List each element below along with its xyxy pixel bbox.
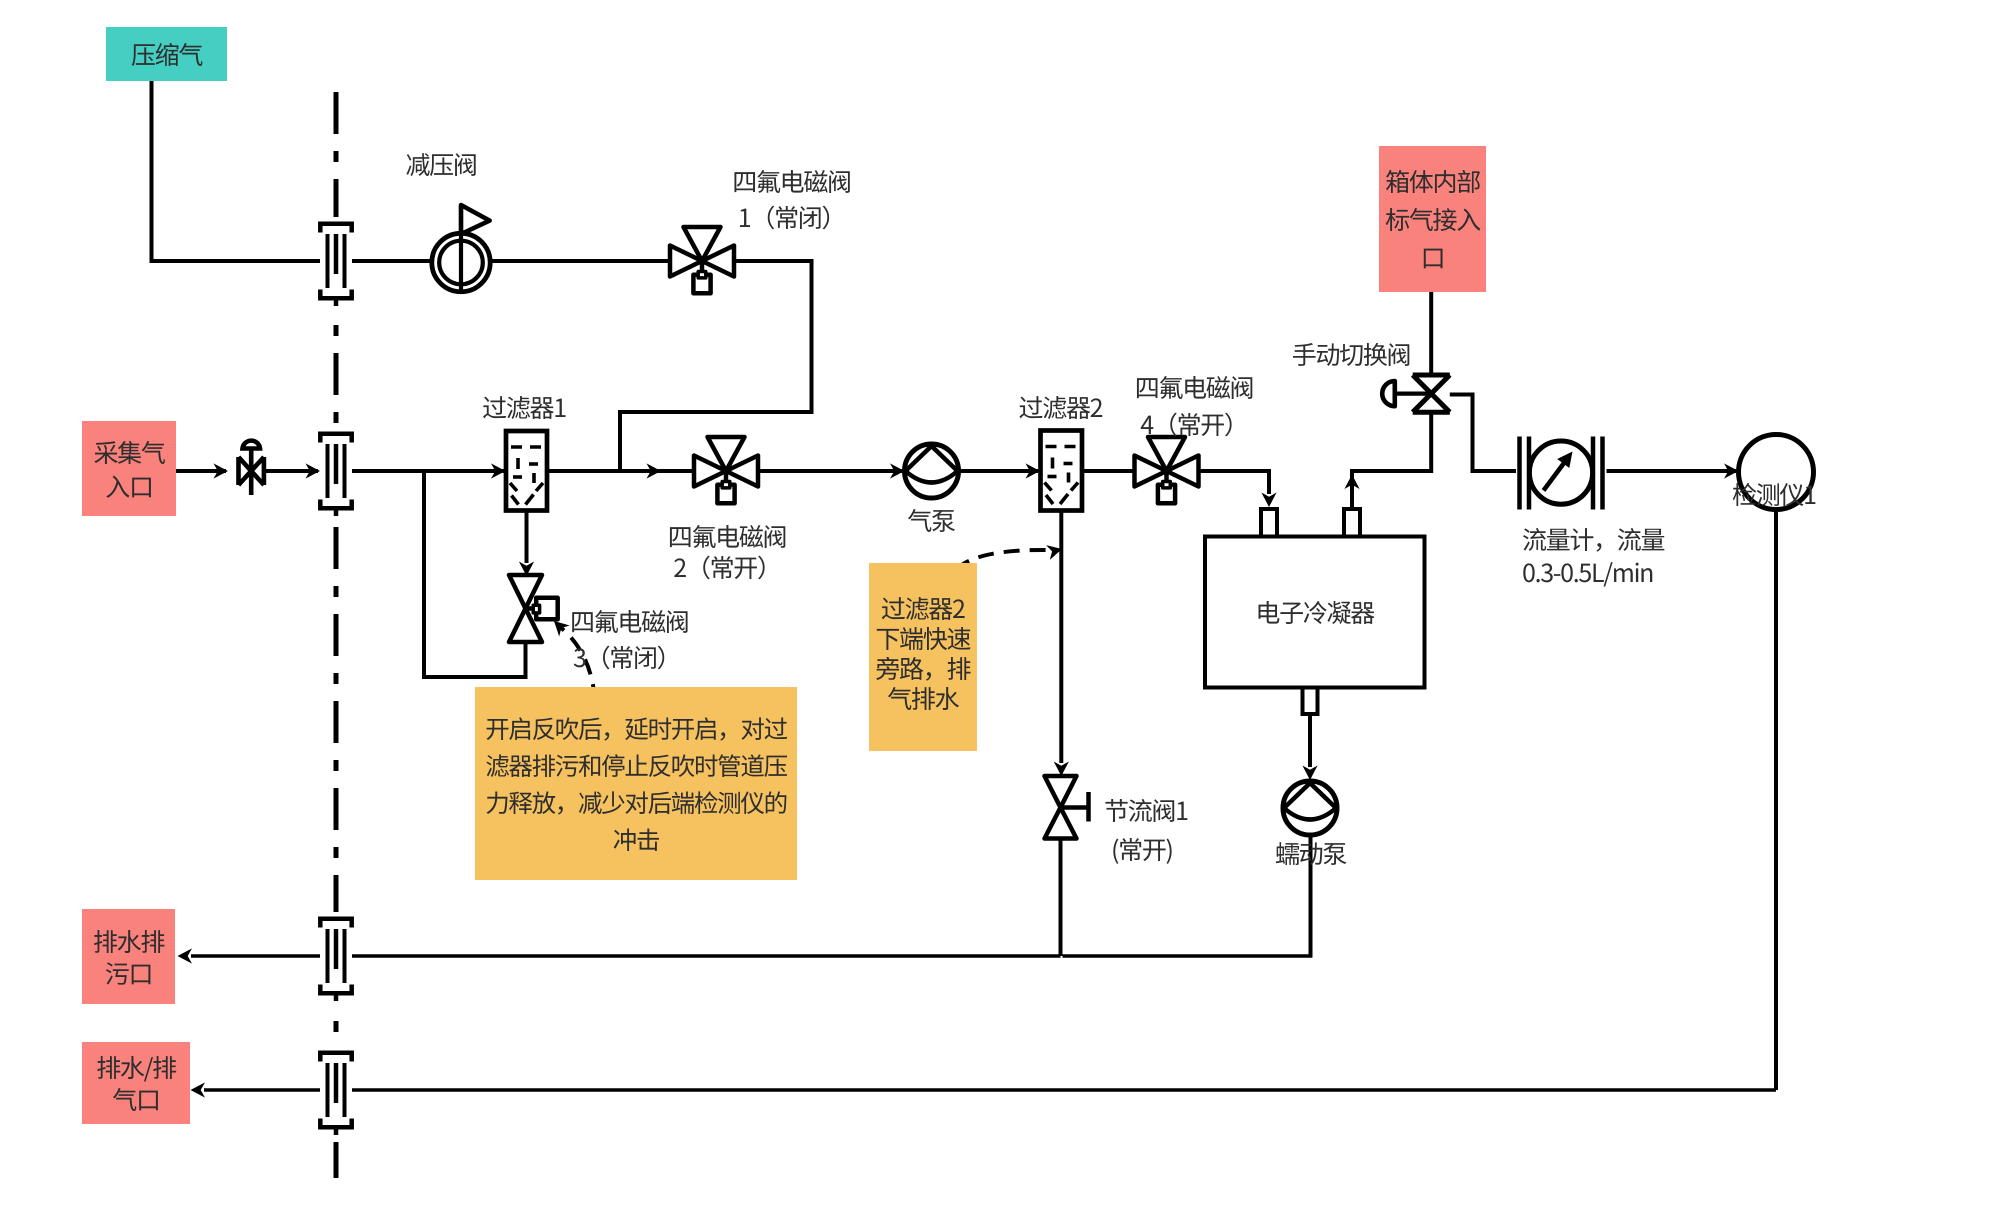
gas pump (气泵) xyxy=(905,444,959,498)
wire: valve4 to condenser inlet xyxy=(1199,471,1270,494)
label 气泵 xyxy=(907,502,954,538)
wire: filter2 to solenoid valve 4 xyxy=(1082,469,1135,473)
wire: valve3 loop back to main line xyxy=(424,471,526,677)
arrowhead into valve 3 xyxy=(519,562,534,577)
terminal box 压缩气 (compressed gas) xyxy=(106,27,227,82)
wire: filter1 to solenoid valve 2 xyxy=(547,469,694,473)
arrowhead into waste drain box xyxy=(178,948,193,963)
note 1 (blowback explanation) xyxy=(475,687,797,880)
arrowhead into bulkhead xyxy=(306,463,321,478)
dashed leader from note 2 to filter2 drain line xyxy=(956,550,1050,570)
arrowhead into condenser inlet port xyxy=(1261,493,1276,508)
bulkhead union fitting (exhaust line) xyxy=(320,1046,351,1142)
solenoid valve V1 (四氟电磁阀1 常闭) xyxy=(670,227,734,293)
filter F2 (过滤器2) xyxy=(1041,431,1083,511)
filter F1 (过滤器1) xyxy=(506,431,547,511)
wire: bulkhead to filter 1 xyxy=(352,469,504,473)
bulkhead union fitting (sample line) xyxy=(320,427,351,523)
label 四氟电磁阀3（常闭） xyxy=(570,604,689,675)
label 蠕动泵 xyxy=(1275,835,1346,871)
peristaltic pump (蠕动泵) xyxy=(1283,781,1337,835)
wire: bulkhead to pressure reducing valve xyxy=(352,259,432,263)
note 2 (filter2 bypass note) xyxy=(869,563,977,751)
arrowhead into gas pump xyxy=(890,463,905,478)
label 减压阀 xyxy=(405,146,476,182)
arrowhead into peristaltic pump xyxy=(1302,766,1317,781)
wire: valve1 to blowback downcomer xyxy=(620,261,812,469)
label 四氟电磁阀2（常开） xyxy=(668,521,787,584)
wire: exhaust bulkhead to outlet box xyxy=(204,1088,320,1092)
bulkhead union fitting (drain line) xyxy=(320,912,351,1008)
arrowhead into check valve xyxy=(214,463,229,478)
label 节流阀1（常开） xyxy=(1104,791,1188,869)
detector instrument circle (检测仪1) xyxy=(1739,435,1814,510)
wire: filter2 bottom down to throttle valve xyxy=(1059,511,1063,764)
terminal box 排水/排气口 (drain/exhaust outlet) xyxy=(82,1042,190,1124)
arrowhead of note-1 leader xyxy=(554,621,570,637)
wire: detector down to exhaust line xyxy=(1774,510,1778,1091)
arrowhead condenser outlet (up) xyxy=(1344,475,1359,490)
condenser bottom drain port xyxy=(1303,688,1318,715)
label 四氟电磁阀1（常闭） xyxy=(732,163,851,235)
wire: drain header to bulkhead xyxy=(352,954,1061,958)
dashed leader from note 1 to valve 3 xyxy=(560,627,595,700)
condenser outlet port xyxy=(1344,509,1360,537)
wire: filter1 bottom down to valve 3 xyxy=(525,511,529,564)
arrowhead after blowback junction xyxy=(647,463,662,478)
label 过滤器2 xyxy=(1019,389,1103,425)
arrowhead into detector xyxy=(1724,463,1739,478)
wire: valve2 to gas pump xyxy=(758,469,903,473)
wire: peristaltic pump down to drain header xyxy=(1309,835,1313,958)
solenoid valve V2 (四氟电磁阀2 常开) xyxy=(694,437,758,503)
arrowhead of note-2 leader xyxy=(1046,545,1062,560)
manual switching valve (手动切换阀) xyxy=(1382,375,1450,412)
terminal box 采集气入口 (sample gas inlet) xyxy=(82,421,176,516)
condenser inlet port xyxy=(1261,509,1277,537)
label 检测仪1 xyxy=(1732,476,1816,512)
wire: throttle valve down to drain header xyxy=(1059,839,1063,957)
arrowhead into throttle valve xyxy=(1054,762,1069,777)
wire: drain bulkhead to outlet box xyxy=(191,954,320,958)
arrowhead into filter 2 xyxy=(1026,463,1041,478)
wire: condenser drain down to peristaltic pump xyxy=(1308,714,1312,767)
flow meter (流量计) xyxy=(1520,437,1603,510)
label 电子冷凝器 xyxy=(1255,594,1374,630)
wire: condenser outlet up to manual valve junction xyxy=(1352,414,1431,510)
pressure reducing valve (减压阀) xyxy=(432,205,490,292)
label 流量计 flow note xyxy=(1522,523,1664,589)
boundary dash-dot line (cabinet wall) xyxy=(334,92,339,1192)
solenoid valve V3 (四氟电磁阀3 常闭) xyxy=(509,575,558,642)
label 过滤器1 xyxy=(482,389,566,425)
wire: stock gas box down to manual valve xyxy=(1429,292,1433,375)
arrowhead into drain/exhaust box xyxy=(191,1082,206,1097)
wire: reducing valve to solenoid valve 1 xyxy=(491,259,671,263)
wire: gas pump to filter 2 xyxy=(959,469,1039,473)
electronic condenser body (电子冷凝器) xyxy=(1205,537,1425,688)
throttle valve (节流阀1 常开) xyxy=(1045,776,1089,839)
wire: pump leg joins drain header xyxy=(1063,954,1313,958)
wire: flow meter to detector xyxy=(1607,469,1737,473)
wire: exhaust header to bulkhead xyxy=(352,1088,1776,1092)
wire: manual valve out to flow meter xyxy=(1450,395,1516,472)
wire: compressed air down from box xyxy=(152,81,321,261)
wire: check valve to bulkhead xyxy=(264,469,318,473)
wire: sample inlet to check valve xyxy=(176,469,226,473)
label 四氟电磁阀4（常开） xyxy=(1135,369,1254,443)
bulkhead union fitting (compressed air line) xyxy=(320,217,351,313)
terminal box 箱体内部标气接入口 (stock gas port) xyxy=(1379,146,1486,292)
solenoid valve V4 (四氟电磁阀4 常开) xyxy=(1135,437,1199,503)
label 手动切换阀 xyxy=(1292,336,1411,372)
check valve (inlet needle valve) xyxy=(239,441,264,495)
terminal box 排水排污口 (waste drain outlet) xyxy=(82,909,175,1004)
arrowhead into filter 1 xyxy=(491,463,506,478)
